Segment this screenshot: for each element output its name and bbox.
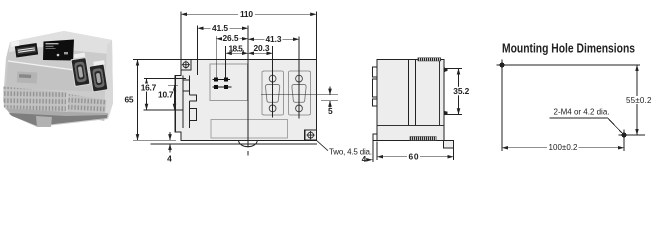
dim 4 front vertical [169, 132, 171, 140]
photo connector label 1 [74, 53, 85, 59]
hole2 ext down [623, 135, 625, 151]
text 55 [625, 96, 653, 104]
front baseline [151, 143, 318, 145]
dim line 41.5 [198, 27, 249, 29]
text 110 [238, 11, 255, 19]
center line [247, 26, 249, 156]
ext line 41.5 left [197, 26, 199, 76]
text 60 [407, 152, 420, 160]
text 100 [547, 143, 579, 151]
leader two 4.5 dia [316, 140, 328, 150]
photo bottom shadow band [5, 108, 108, 125]
front dsub shape 2 [292, 84, 306, 102]
ext line 18.5 left [225, 46, 227, 78]
front din slider [183, 76, 197, 128]
photo connector label 2 [93, 60, 104, 66]
front tab hole top-left [182, 61, 190, 69]
svg-text:26.5: 26.5 [223, 33, 239, 43]
front dip switch [212, 78, 231, 89]
dim 35.2 ticks [446, 68, 462, 114]
hole2 line right [624, 134, 645, 136]
ref line 10.7 top [168, 84, 178, 86]
side top ribs [418, 58, 441, 61]
text 10.7 [157, 91, 174, 99]
front connector screws [269, 75, 302, 112]
dim line 16.7 [146, 79, 148, 110]
svg-text:Mounting Hole Dimensions: Mounting Hole Dimensions [502, 41, 635, 55]
text 41.3 [265, 35, 283, 43]
svg-text:60: 60 [409, 151, 419, 161]
photo strip label [11, 41, 20, 47]
svg-text:5: 5 [328, 106, 333, 116]
photo top face highlight [9, 31, 112, 54]
side bottom ribs [410, 137, 436, 141]
side body [377, 60, 444, 141]
front connector box 2 [288, 71, 310, 115]
ext line connector 1 center [272, 46, 274, 118]
front connector box 1 [262, 71, 284, 115]
ext line 65 top [133, 59, 181, 61]
photo body silhouette [3, 31, 113, 127]
dim 5 right lines [321, 100, 338, 102]
dim line 18.5 [226, 52, 248, 54]
photo right side face [104, 40, 113, 119]
svg-text:16.7: 16.7 [141, 83, 157, 93]
side inner seam [409, 60, 416, 126]
photo connector well 1 [70, 57, 90, 87]
svg-text:110: 110 [240, 9, 253, 19]
ext 4 side [372, 141, 374, 162]
photo ridge line [8, 61, 105, 74]
side right hooks [444, 68, 448, 116]
front mounting tab top-left [181, 59, 191, 70]
svg-text:4: 4 [362, 154, 367, 164]
front dsub shape 1 [265, 84, 279, 102]
photo front recess slot [17, 71, 38, 83]
ext line 110 left [180, 12, 182, 60]
front gray panel bottom [211, 119, 287, 137]
svg-text:65: 65 [125, 95, 134, 105]
dim line 35.2 [458, 68, 460, 114]
svg-text:41.5: 41.5 [212, 23, 228, 33]
ext 60 right [453, 149, 455, 161]
photo connector well 2 [88, 63, 108, 92]
dim line 55 [636, 65, 638, 135]
mounting hole 1 [497, 60, 508, 71]
side inner horizontal [377, 125, 444, 127]
front mounting tab bottom-right [305, 130, 317, 140]
svg-text:10.7: 10.7 [158, 90, 174, 100]
text 35.2 [453, 87, 471, 96]
photo vent area left [3, 86, 66, 113]
svg-text:35.2: 35.2 [453, 86, 469, 96]
photo din tab [36, 116, 52, 127]
ext line 110 right [315, 12, 317, 60]
photo terminal strip [15, 43, 38, 57]
dim line 20.3 [248, 52, 273, 54]
svg-text:55±0.2: 55±0.2 [626, 96, 652, 105]
svg-text:4: 4 [167, 153, 172, 163]
svg-text:2-M4 or 4.2 dia.: 2-M4 or 4.2 dia. [554, 108, 610, 117]
photo black display label [43, 40, 74, 61]
dim line 10.7 [174, 85, 176, 110]
photo front mid band [6, 61, 105, 92]
dim line 26.5 [216, 38, 248, 40]
svg-text:20.3: 20.3 [254, 43, 270, 53]
ext line 26.5 left [215, 36, 217, 78]
ext line connector 2 center [298, 37, 300, 119]
text 26.5 [222, 35, 240, 43]
text 16.7 [140, 84, 158, 92]
ext 60 left [376, 142, 378, 161]
side bottom-right foot [444, 141, 454, 148]
dim 4 side arrow [367, 159, 373, 161]
leader 2-M4 [549, 118, 622, 133]
front tab hole bottom-right [307, 131, 315, 139]
dim line 100 [502, 147, 624, 149]
svg-text:100±0.2: 100±0.2 [549, 143, 579, 152]
text 41.5 [211, 24, 230, 32]
front body [175, 59, 316, 140]
dim line 65 [137, 60, 139, 141]
mounting hole 2 [619, 130, 630, 141]
front din latch bump [239, 140, 258, 146]
side left tabs [373, 67, 377, 106]
dim line 110 [181, 13, 316, 15]
svg-text:18.5,: 18.5, [229, 44, 245, 54]
ext line 65 bottom [133, 139, 176, 141]
ref line bottom [144, 109, 184, 111]
side bottom-left foot [373, 134, 377, 141]
line through connectors [261, 94, 338, 96]
side right strip [439, 60, 441, 126]
dim line 60 [377, 156, 454, 158]
ref line 16.7 top [144, 78, 186, 80]
front gray panel top [210, 64, 248, 101]
left ext [501, 65, 503, 151]
photo vent area right [67, 94, 106, 121]
dim line 41.3 [248, 38, 299, 40]
top line [502, 64, 640, 66]
